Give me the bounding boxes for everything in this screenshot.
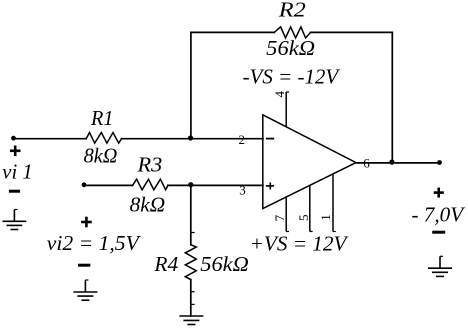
wire vi2 to R3: [84, 184, 133, 186]
resistor R3: [133, 179, 168, 190]
wire R4 to ground: [190, 280, 192, 316]
svg-text:-VS = -12V: -VS = -12V: [243, 64, 341, 88]
op-amp plus input mark: [266, 185, 274, 187]
svg-text:2: 2: [239, 132, 246, 147]
wire vi1 to R1: [14, 138, 87, 140]
svg-text:3: 3: [239, 182, 246, 197]
svg-text:56kΩ: 56kΩ: [200, 252, 249, 276]
node: vi1 terminal: [11, 136, 16, 141]
minus mark output: [432, 231, 445, 234]
plus mark vi1: [10, 146, 21, 157]
wire feedback right vertical: [391, 32, 393, 163]
ground (vi2): [73, 280, 97, 300]
wire node3 down to R4: [190, 185, 192, 244]
wire feedback left vertical: [190, 32, 192, 138]
node: output junction: [389, 160, 394, 165]
wire output: [356, 162, 440, 164]
ground (R4): [179, 316, 203, 325]
minus mark vi2: [78, 264, 90, 267]
node: junction R1/R2/pin2: [188, 135, 193, 140]
svg-text:R2: R2: [278, 0, 307, 21]
svg-text:vi2 = 1,5V: vi2 = 1,5V: [47, 231, 141, 255]
pin tick R4 top: [191, 232, 194, 234]
resistor R1: [86, 133, 121, 144]
svg-text:7: 7: [272, 214, 287, 221]
svg-text:4: 4: [272, 91, 287, 98]
svg-text:- 7,0V: - 7,0V: [412, 202, 466, 226]
svg-text:6: 6: [363, 156, 370, 171]
resistor R4: [185, 245, 196, 280]
svg-text:R4: R4: [153, 252, 178, 276]
pin 5 wire: [309, 185, 311, 232]
plus mark vi2: [81, 217, 92, 228]
op-amp minus input mark: [266, 138, 274, 140]
wire R3 to pin3: [168, 184, 263, 186]
wire R1 to pin2: [122, 138, 264, 140]
svg-text:vi 1: vi 1: [2, 160, 32, 184]
pin 1 wire: [332, 173, 334, 232]
plus mark output: [434, 188, 444, 198]
wire top feedback left: [191, 31, 274, 33]
svg-text:5: 5: [296, 214, 311, 221]
svg-text:56kΩ: 56kΩ: [266, 36, 315, 60]
minus mark vi1: [9, 190, 20, 193]
pin tick R4 bottom: [191, 291, 194, 293]
svg-text:R3: R3: [136, 153, 162, 177]
node: junction R3/R4/pin3: [188, 182, 193, 187]
pin tick ground R4: [191, 303, 194, 305]
svg-text:8kΩ: 8kΩ: [84, 144, 118, 168]
ground (vi1): [3, 210, 27, 230]
svg-text:R1: R1: [90, 106, 113, 130]
node: output terminal: [437, 160, 442, 165]
node: vi2 terminal: [82, 182, 87, 187]
pin 4 wire: [285, 92, 287, 127]
svg-text:+VS = 12V: +VS = 12V: [250, 232, 349, 256]
pin 7 wire: [285, 196, 287, 231]
op-amp U1: [263, 92, 356, 232]
ground (output): [428, 256, 452, 276]
svg-text:8kΩ: 8kΩ: [130, 192, 166, 216]
resistor R2: [274, 27, 310, 38]
wire top feedback right: [311, 31, 393, 33]
svg-text:1: 1: [318, 214, 333, 221]
